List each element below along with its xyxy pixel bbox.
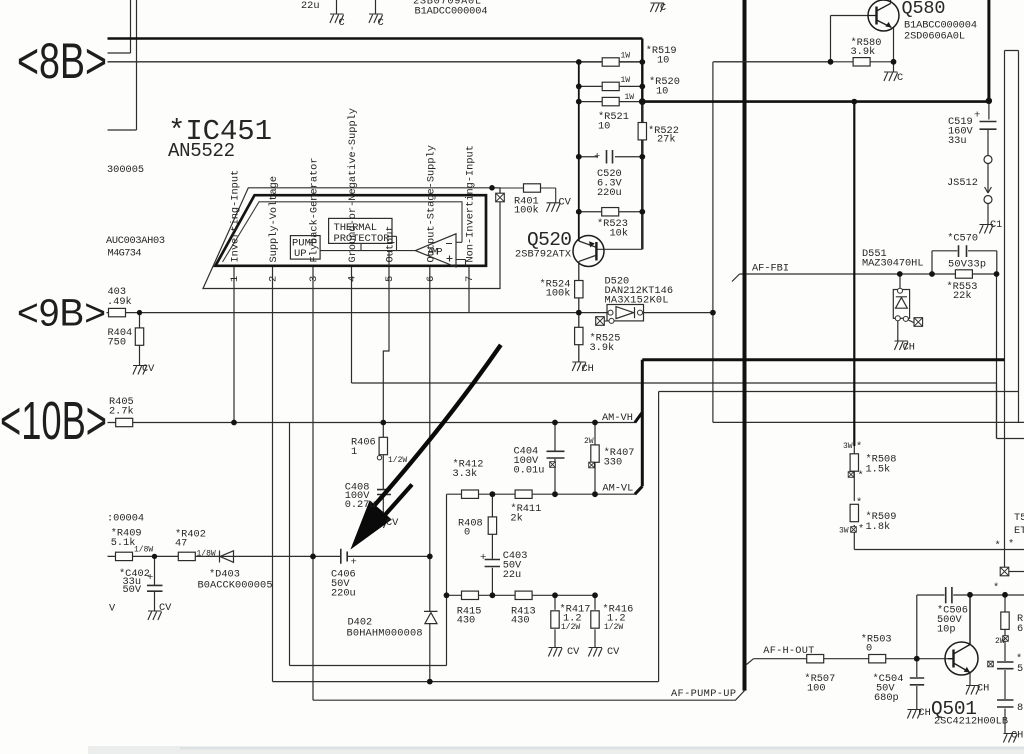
svg-text:CH: CH [1011, 730, 1023, 742]
svg-text:<10B>: <10B> [0, 391, 107, 451]
svg-text:Output-Stage-Supply: Output-Stage-Supply [426, 145, 438, 262]
svg-text:2W: 2W [995, 637, 1005, 646]
svg-text:*: * [993, 582, 999, 594]
svg-text:1: 1 [229, 276, 241, 282]
svg-text:*: * [1008, 539, 1014, 551]
svg-text:CV: CV [159, 602, 172, 614]
svg-text:AF-PUMP-UP: AF-PUMP-UP [671, 688, 736, 700]
svg-text:0: 0 [464, 527, 470, 539]
svg-text:R408: R408 [458, 518, 483, 530]
svg-text:10k: 10k [610, 228, 629, 240]
svg-text:1W: 1W [625, 93, 635, 102]
svg-text:0: 0 [866, 643, 872, 655]
svg-text:+: + [351, 557, 357, 569]
svg-text:*: * [858, 524, 864, 536]
svg-text:C: C [339, 17, 345, 29]
svg-text:CH: CH [582, 363, 594, 375]
svg-text:5: 5 [384, 276, 396, 282]
svg-text:7: 7 [464, 276, 476, 282]
svg-text:100: 100 [807, 683, 826, 695]
svg-text:22k: 22k [953, 290, 972, 302]
svg-text:+: + [480, 552, 486, 564]
svg-text:PROTECTOR: PROTECTOR [334, 233, 391, 245]
svg-text:C: C [378, 17, 384, 29]
svg-text:AUC003AH03: AUC003AH03 [106, 235, 165, 247]
svg-text:C: C [660, 2, 666, 14]
svg-text:3: 3 [308, 276, 320, 282]
svg-text:22u: 22u [503, 569, 522, 581]
svg-text:1/8W: 1/8W [197, 550, 216, 559]
svg-text:Non-Inverting-Input: Non-Inverting-Input [465, 145, 477, 262]
svg-text:47: 47 [175, 538, 187, 550]
svg-text:<8B>: <8B> [17, 33, 107, 89]
svg-text:*: * [995, 540, 1001, 552]
svg-text::00004: :00004 [107, 513, 144, 525]
svg-text:2SC4212H00LB: 2SC4212H00LB [934, 716, 1008, 728]
svg-text:ET: ET [1014, 525, 1024, 537]
svg-text:*: * [856, 497, 862, 509]
svg-text:3W: 3W [839, 527, 849, 536]
svg-text:27k: 27k [657, 134, 676, 146]
svg-text:10: 10 [598, 121, 610, 133]
svg-text:5.1k: 5.1k [111, 537, 136, 549]
svg-text:3.9k: 3.9k [590, 342, 615, 354]
svg-text:50V: 50V [123, 584, 142, 596]
svg-text:V: V [109, 603, 116, 615]
svg-text:680p: 680p [874, 692, 899, 704]
svg-text:1.5k: 1.5k [866, 464, 891, 476]
svg-text:2SB792ATX: 2SB792ATX [515, 249, 571, 261]
svg-text:1.8k: 1.8k [866, 521, 891, 533]
svg-text:1: 1 [351, 446, 357, 458]
svg-text:220u: 220u [331, 588, 356, 600]
svg-text:1/8W: 1/8W [134, 546, 153, 555]
svg-text:Q580: Q580 [902, 0, 946, 19]
svg-text:*: * [856, 441, 862, 453]
svg-text:CV: CV [567, 646, 580, 658]
svg-text:1/2W: 1/2W [561, 623, 580, 632]
svg-text:1W: 1W [621, 76, 631, 85]
svg-text:3.9k: 3.9k [851, 46, 876, 58]
svg-text:6: 6 [1017, 623, 1023, 635]
svg-text:Inverting-Input: Inverting-Input [230, 170, 242, 263]
svg-text:T5: T5 [1014, 512, 1024, 524]
svg-text:8: 8 [1017, 702, 1023, 714]
svg-text:10: 10 [656, 86, 668, 98]
svg-text:2.7k: 2.7k [109, 406, 134, 418]
svg-text:33u: 33u [948, 135, 967, 147]
svg-text:*C570: *C570 [947, 233, 978, 245]
svg-text:MA3X152K0L: MA3X152K0L [605, 295, 669, 307]
svg-text:AF-FBI: AF-FBI [752, 263, 789, 275]
svg-text:.49k: .49k [107, 296, 132, 308]
svg-text:*: * [858, 470, 864, 482]
svg-text:1/2W: 1/2W [388, 456, 407, 465]
svg-text:5: 5 [1017, 663, 1023, 675]
svg-text:B1ADCC000004: B1ADCC000004 [415, 6, 488, 18]
svg-text:0.27u: 0.27u [345, 499, 376, 511]
svg-text:MAZ30470HL: MAZ30470HL [862, 258, 924, 270]
svg-text:CH: CH [977, 683, 989, 695]
svg-text:C1: C1 [990, 219, 1002, 231]
svg-text:4: 4 [347, 276, 359, 282]
svg-text:CV: CV [386, 517, 399, 529]
svg-text:AF-H-OUT: AF-H-OUT [763, 645, 814, 657]
svg-text:2W: 2W [584, 437, 594, 446]
svg-text:C: C [897, 72, 903, 84]
svg-text:3.3k: 3.3k [453, 468, 478, 480]
svg-text:2: 2 [268, 276, 280, 282]
svg-text:+: + [974, 110, 980, 122]
svg-text:AMP: AMP [428, 247, 443, 259]
svg-text:CV: CV [559, 197, 572, 209]
svg-text:100k: 100k [514, 205, 539, 217]
svg-text:+: + [147, 572, 153, 584]
svg-text:330: 330 [604, 457, 623, 469]
svg-text:UP: UP [294, 248, 307, 260]
svg-text:6: 6 [425, 276, 437, 282]
svg-text:2SD0606A0L: 2SD0606A0L [904, 31, 965, 43]
svg-text:430: 430 [457, 615, 476, 627]
svg-text:0.01u: 0.01u [514, 465, 545, 477]
svg-text:430: 430 [511, 615, 530, 627]
svg-text:10p: 10p [937, 624, 956, 636]
svg-text:AM-VL: AM-VL [602, 483, 633, 495]
svg-text:10: 10 [657, 55, 669, 67]
svg-text:CV: CV [607, 646, 620, 658]
svg-text:1W: 1W [621, 52, 631, 61]
svg-text:AN5522: AN5522 [168, 140, 235, 162]
svg-text:CV: CV [142, 363, 155, 375]
svg-text:JS512: JS512 [947, 177, 978, 189]
svg-text:<9B>: <9B> [17, 293, 106, 335]
svg-text:+: + [594, 151, 600, 163]
svg-text:Supply-Voltage: Supply-Voltage [268, 176, 280, 263]
svg-text:2k: 2k [510, 513, 522, 525]
svg-text:100k: 100k [546, 288, 571, 300]
svg-text:AM-VH: AM-VH [602, 412, 633, 424]
svg-text:CH: CH [903, 342, 915, 354]
svg-text:22u: 22u [301, 0, 320, 12]
svg-text:B0HAHM000008: B0HAHM000008 [347, 628, 423, 640]
svg-text:220u: 220u [597, 187, 622, 199]
svg-text:1/2W: 1/2W [604, 623, 623, 632]
svg-text:CH: CH [918, 707, 930, 719]
svg-text:50V33p: 50V33p [948, 259, 986, 271]
svg-text:3W: 3W [843, 442, 853, 451]
svg-text:B0ACCK000005: B0ACCK000005 [198, 580, 273, 592]
svg-text:M4G734: M4G734 [108, 248, 142, 260]
svg-text:300005: 300005 [107, 164, 144, 176]
svg-text:750: 750 [108, 337, 127, 349]
